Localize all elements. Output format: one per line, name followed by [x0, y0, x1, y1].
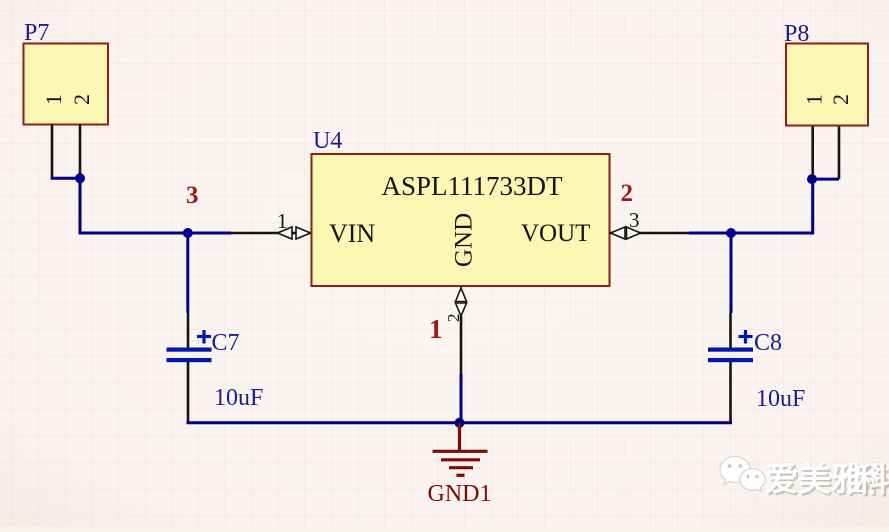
svg-text:1: 1: [41, 94, 66, 105]
watermark logo: [720, 457, 765, 492]
wire: [813, 178, 839, 181]
junction: [726, 228, 736, 238]
P8 pin 1: [811, 125, 814, 177]
capacitor C8: [708, 313, 753, 422]
svg-text:GND1: GND1: [428, 481, 492, 507]
U4 pin 3 I/O arrows: [611, 227, 641, 239]
connector P7: [24, 44, 109, 125]
svg-text:VIN: VIN: [329, 219, 375, 248]
P8 pin 2: [838, 125, 841, 179]
svg-text:GND: GND: [451, 213, 478, 267]
U4 pin 3 (VOUT): [610, 232, 690, 235]
junction: [807, 174, 817, 184]
svg-text:ASPL111733DT: ASPL111733DT: [381, 171, 563, 201]
junction: [183, 228, 193, 238]
svg-text:10uF: 10uF: [214, 385, 263, 411]
op-amp U4 body: [312, 154, 610, 286]
wire: [811, 179, 814, 234]
U4 pin 2 I/O arrows: [456, 287, 467, 317]
U4 pin 2 (GND, bottom): [460, 316, 463, 374]
watermark text: [765, 462, 889, 502]
svg-text:VOUT: VOUT: [521, 220, 590, 247]
svg-text:10uF: 10uF: [756, 386, 805, 412]
wire: [689, 232, 813, 235]
svg-text:科技: 科技: [856, 462, 889, 499]
ground GND1: [433, 423, 488, 476]
svg-text:3: 3: [186, 182, 199, 209]
svg-text:C7: C7: [212, 330, 240, 356]
svg-text:1: 1: [802, 94, 827, 105]
connector P8: [786, 44, 868, 126]
wire: [79, 232, 232, 235]
wire: [460, 374, 463, 423]
wire: [187, 421, 733, 424]
capacitor C7: [167, 313, 212, 422]
wire: [79, 178, 82, 233]
svg-text:1: 1: [429, 314, 443, 344]
junction: [455, 418, 465, 428]
svg-text:2: 2: [621, 180, 634, 207]
wire: [186, 233, 189, 313]
svg-text:U4: U4: [313, 128, 342, 154]
U4 pin 1 (VIN): [231, 232, 312, 235]
svg-text:C8: C8: [754, 330, 782, 356]
svg-text:2: 2: [828, 94, 853, 105]
P7 pin 2: [79, 125, 82, 179]
P7 pin 1: [51, 125, 54, 179]
svg-text:P7: P7: [24, 20, 49, 46]
svg-text:2: 2: [69, 94, 94, 105]
junction: [75, 173, 85, 183]
U4 pin 1 I/O arrows: [278, 227, 311, 239]
svg-text:2: 2: [444, 314, 463, 323]
wire: [51, 177, 80, 180]
wire: [730, 233, 733, 313]
